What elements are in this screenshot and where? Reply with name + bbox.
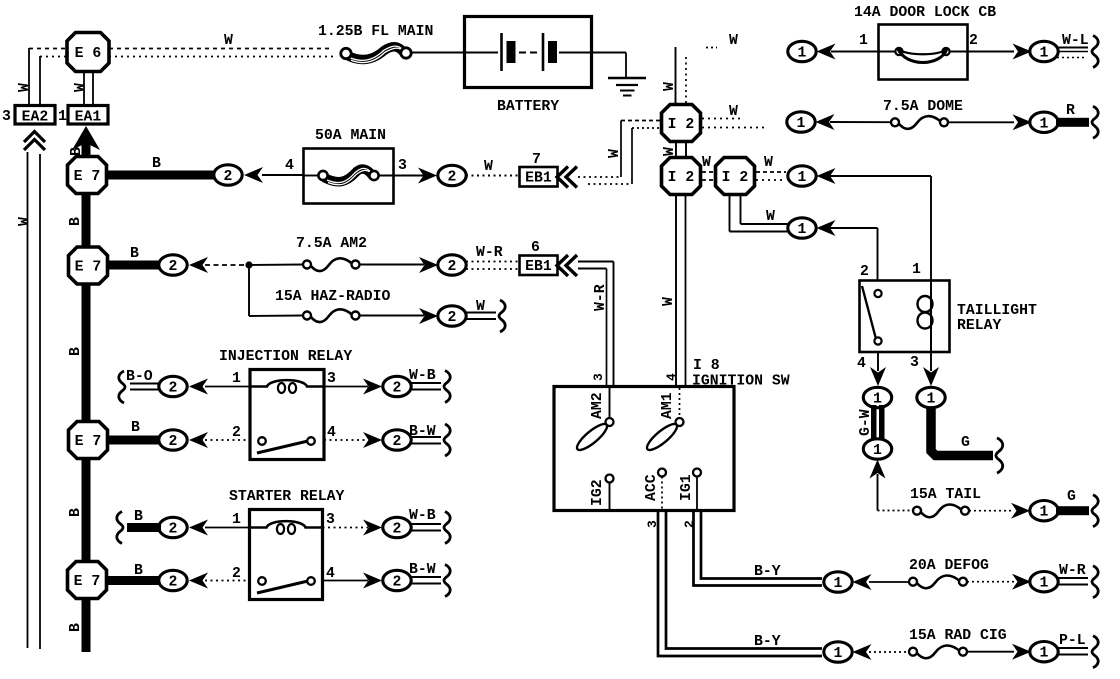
svg-text:B-W: B-W xyxy=(409,424,436,440)
svg-text:W: W xyxy=(661,297,677,306)
svg-text:TAILLIGHT: TAILLIGHT xyxy=(957,303,1037,319)
svg-text:3: 3 xyxy=(327,371,336,387)
svg-text:W: W xyxy=(476,299,485,315)
svg-text:2: 2 xyxy=(393,434,402,450)
svg-text:15A HAZ-RADIO: 15A HAZ-RADIO xyxy=(275,289,391,305)
svg-text:3: 3 xyxy=(398,158,407,174)
svg-text:1: 1 xyxy=(834,576,843,592)
svg-text:ACC: ACC xyxy=(644,474,660,501)
svg-text:W: W xyxy=(729,33,738,49)
svg-text:B-Y: B-Y xyxy=(754,564,781,580)
svg-text:15A RAD CIG: 15A RAD CIG xyxy=(909,628,1007,644)
svg-text:1: 1 xyxy=(797,116,806,132)
svg-text:E 7: E 7 xyxy=(74,169,101,185)
svg-text:2: 2 xyxy=(393,575,402,591)
svg-text:2: 2 xyxy=(860,264,869,280)
svg-text:4: 4 xyxy=(664,373,679,381)
svg-text:2: 2 xyxy=(393,522,402,538)
svg-text:1: 1 xyxy=(1040,576,1049,592)
svg-text:B-Y: B-Y xyxy=(754,634,781,650)
svg-text:INJECTION RELAY: INJECTION RELAY xyxy=(219,349,352,365)
svg-text:RELAY: RELAY xyxy=(957,318,1002,334)
svg-text:AM1: AM1 xyxy=(660,392,676,419)
svg-text:W: W xyxy=(224,33,233,49)
svg-text:1: 1 xyxy=(873,443,882,459)
svg-text:IG1: IG1 xyxy=(679,474,695,501)
svg-text:E 6: E 6 xyxy=(75,46,102,62)
svg-text:W: W xyxy=(73,83,89,92)
svg-text:EB1: EB1 xyxy=(525,171,552,187)
svg-text:W: W xyxy=(662,82,678,91)
svg-text:E 7: E 7 xyxy=(75,434,102,450)
svg-text:R: R xyxy=(1066,103,1075,119)
svg-text:1: 1 xyxy=(232,371,241,387)
svg-text:7.5A AM2: 7.5A AM2 xyxy=(296,236,367,252)
svg-text:7.5A DOME: 7.5A DOME xyxy=(883,99,963,115)
svg-text:1: 1 xyxy=(1040,46,1049,62)
svg-text:B: B xyxy=(130,246,139,262)
svg-text:B-O: B-O xyxy=(126,369,153,385)
svg-text:1: 1 xyxy=(1040,646,1049,662)
svg-text:2: 2 xyxy=(232,425,241,441)
svg-text:1: 1 xyxy=(912,262,921,278)
svg-text:1: 1 xyxy=(798,46,807,62)
svg-text:2: 2 xyxy=(169,434,178,450)
svg-text:W: W xyxy=(729,104,738,120)
svg-text:G: G xyxy=(1067,489,1076,505)
svg-text:4: 4 xyxy=(285,158,294,174)
svg-text:W: W xyxy=(484,159,493,175)
svg-text:1.25B FL MAIN: 1.25B FL MAIN xyxy=(318,24,433,40)
svg-text:B: B xyxy=(68,217,84,226)
svg-text:4: 4 xyxy=(857,356,866,372)
svg-text:EA2: EA2 xyxy=(22,110,49,126)
svg-text:W: W xyxy=(17,217,33,226)
svg-text:1: 1 xyxy=(798,170,807,186)
svg-text:3: 3 xyxy=(326,512,335,528)
svg-text:W-B: W-B xyxy=(409,368,436,384)
svg-text:IG2: IG2 xyxy=(590,479,606,506)
svg-text:B: B xyxy=(68,508,84,517)
svg-text:B: B xyxy=(68,347,84,356)
svg-text:1: 1 xyxy=(232,512,241,528)
svg-text:1: 1 xyxy=(798,222,807,238)
svg-text:14A DOOR LOCK CB: 14A DOOR LOCK CB xyxy=(854,5,996,21)
svg-text:G: G xyxy=(961,435,970,451)
svg-text:I 2: I 2 xyxy=(668,117,695,133)
svg-text:2: 2 xyxy=(448,259,457,275)
svg-text:BATTERY: BATTERY xyxy=(497,99,559,115)
svg-text:W-R: W-R xyxy=(476,245,503,261)
svg-text:EA1: EA1 xyxy=(75,110,102,126)
svg-text:B: B xyxy=(69,147,85,156)
svg-text:1: 1 xyxy=(58,109,67,125)
svg-text:20A DEFOG: 20A DEFOG xyxy=(909,558,989,574)
svg-text:W-R: W-R xyxy=(593,284,609,311)
svg-text:W: W xyxy=(766,209,775,225)
svg-text:W-R: W-R xyxy=(1059,563,1086,579)
svg-text:B: B xyxy=(152,156,161,172)
svg-text:B-W: B-W xyxy=(409,562,436,578)
svg-text:G-W: G-W xyxy=(858,409,874,436)
svg-text:I 2: I 2 xyxy=(722,170,749,186)
svg-text:2: 2 xyxy=(393,381,402,397)
svg-text:1: 1 xyxy=(859,33,868,49)
svg-text:1: 1 xyxy=(834,646,843,662)
svg-text:EB1: EB1 xyxy=(525,259,552,275)
svg-text:1: 1 xyxy=(927,392,936,408)
svg-text:50A MAIN: 50A MAIN xyxy=(315,128,386,144)
svg-text:E 7: E 7 xyxy=(74,574,101,590)
svg-text:STARTER RELAY: STARTER RELAY xyxy=(229,489,345,505)
svg-text:2: 2 xyxy=(169,575,178,591)
svg-text:2: 2 xyxy=(224,169,233,185)
svg-text:3: 3 xyxy=(910,355,919,371)
svg-text:B: B xyxy=(131,420,140,436)
svg-text:2: 2 xyxy=(169,522,178,538)
svg-text:2: 2 xyxy=(169,381,178,397)
svg-text:P-L: P-L xyxy=(1059,633,1086,649)
svg-text:3: 3 xyxy=(2,109,11,125)
svg-text:B: B xyxy=(134,509,143,525)
svg-text:W: W xyxy=(702,155,711,171)
svg-text:I 8: I 8 xyxy=(693,358,720,374)
svg-text:15A TAIL: 15A TAIL xyxy=(910,487,981,503)
svg-text:2: 2 xyxy=(448,170,457,186)
svg-text:E 7: E 7 xyxy=(75,260,102,276)
svg-text:2: 2 xyxy=(169,259,178,275)
svg-text:W: W xyxy=(764,155,773,171)
svg-text:2: 2 xyxy=(232,566,241,582)
svg-text:W: W xyxy=(607,149,623,158)
svg-text:6: 6 xyxy=(531,240,540,256)
svg-text:W: W xyxy=(17,83,33,92)
svg-text:I 2: I 2 xyxy=(668,170,695,186)
svg-text:4: 4 xyxy=(327,425,336,441)
svg-text:AM2: AM2 xyxy=(590,392,606,419)
svg-text:1: 1 xyxy=(1040,505,1049,521)
svg-text:B: B xyxy=(68,623,84,632)
svg-text:W: W xyxy=(662,147,678,156)
svg-text:2: 2 xyxy=(969,33,978,49)
svg-text:1: 1 xyxy=(1040,116,1049,132)
svg-text:2: 2 xyxy=(448,310,457,326)
svg-text:B: B xyxy=(134,563,143,579)
svg-text:3: 3 xyxy=(591,373,606,381)
svg-text:W-B: W-B xyxy=(409,508,436,524)
svg-text:7: 7 xyxy=(532,152,541,168)
